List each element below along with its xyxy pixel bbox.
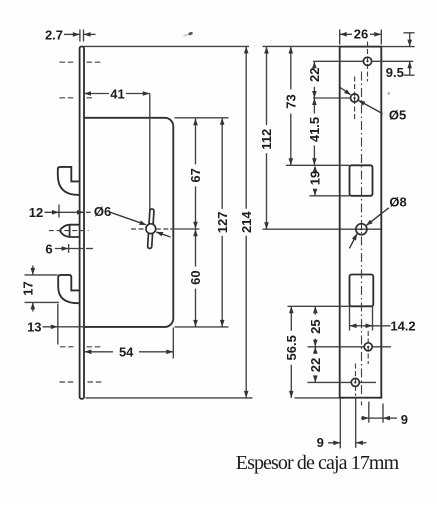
lower hook extension line [57,304,59,345]
svg-text:17: 17 [21,281,36,295]
svg-text:14.2: 14.2 [390,319,415,334]
dimension 14.2 [349,306,351,330]
spindle butterfly cam arm [148,209,155,249]
label O8 with leader [367,208,389,226]
lower rectangular cutout [350,275,374,307]
hole3 centerline [367,331,369,364]
svg-text:54: 54 [119,345,134,360]
hole O8 [356,224,367,235]
dimension 2.7 plate thickness [79,30,81,42]
horizontal extension line to right view [263,228,382,230]
svg-text:Espesor de caja 17mm: Espesor de caja 17mm [236,452,400,474]
svg-text:127: 127 [215,212,230,234]
dimension 73 [290,47,292,90]
dimension 13 leader [43,326,85,328]
dimension 9.5 [404,32,415,34]
dimension 6 [55,248,84,250]
dimension 54 [84,351,113,353]
lock body outline [84,118,173,327]
svg-text:Ø5: Ø5 [389,107,406,122]
break dashes upper row 1 [60,61,76,63]
extension line cutout1 bottom [310,195,350,197]
dimension 22 upper [313,61,315,62]
dimension 25 [314,306,316,314]
dimension 26 [339,30,341,45]
hole1 centerline [367,42,369,82]
svg-text:22: 22 [307,67,322,81]
plate left edge extension below [339,398,341,448]
svg-text:214: 214 [239,211,254,233]
lower hook latch [58,275,80,303]
bullet centerline [49,230,89,232]
screw hole3 [364,343,372,351]
faceplate front view [340,47,382,398]
extension line plate top right [381,46,414,48]
svg-text:112: 112 [259,129,274,150]
svg-text:73: 73 [284,94,299,108]
body top extension line [175,117,229,119]
extension line hole2 level [313,97,351,99]
dimension 19 [314,190,316,196]
svg-text:Ø6: Ø6 [94,204,111,219]
dimension 56.5 [290,306,292,331]
screw hole1 [363,57,371,65]
break dashes upper row 2 [60,97,76,99]
spindle hub circle [146,224,156,234]
dimension 17 [32,266,34,275]
faceplate side view (edge-on plate) [80,47,84,399]
break dashes lower row 2 [60,381,76,383]
svg-text:12: 12 [29,205,43,220]
screw hole4 [351,378,359,386]
svg-text:19: 19 [308,171,323,185]
screw hole2 O5 [351,94,359,102]
svg-text:9: 9 [401,412,408,427]
upper hook latch [58,167,80,195]
dimension 9 bottom [328,442,340,444]
top extension line [84,45,249,47]
hole4 centerline extended below plate [355,364,357,397]
main vertical centerline dash-dot [361,72,363,406]
body bottom extension line [175,326,229,328]
dimension 41 [84,93,109,95]
extension line hole4 level [308,381,352,383]
dimension 67 [195,118,197,164]
dimension 60 [195,229,197,266]
svg-text:67: 67 [188,168,203,182]
svg-text:60: 60 [188,270,203,284]
svg-text:9: 9 [317,435,324,450]
horizontal centerline through spindle [131,228,146,230]
break dashes lower row 1 [60,346,74,348]
extension line hole1 level [313,60,363,62]
hole2 centerline [354,77,356,121]
svg-text:26: 26 [354,27,368,42]
svg-text:2.7: 2.7 [45,28,63,43]
dimension 127 [221,118,223,209]
dimension 22 lower [314,347,316,353]
extension line hole3 level [308,346,365,348]
upper rectangular cutout [350,165,373,196]
scan faint dot [388,92,391,95]
roller bullet catch [60,225,80,237]
extension line cutout1 top [286,164,350,166]
dimension 112 [266,47,268,126]
svg-text:22: 22 [308,358,323,372]
bottom extension line [86,397,253,399]
dimension 12 [45,211,85,213]
dimension 9 right [361,417,369,419]
dimension 41.5 [313,98,315,114]
svg-text:25: 25 [308,319,323,333]
svg-text:41: 41 [110,87,124,102]
svg-text:56.5: 56.5 [284,335,299,360]
svg-text:41.5: 41.5 [307,117,322,142]
extension line cutout2 bottom [288,305,350,307]
svg-text:9.5: 9.5 [386,65,404,80]
svg-text:13: 13 [27,320,41,335]
scan smudge speck [188,31,194,35]
svg-text:Ø8: Ø8 [389,195,406,210]
svg-text:6: 6 [45,242,52,257]
dimension 214 [245,46,247,208]
label O5 with leader [340,88,350,95]
spindle vertical extension line [149,94,151,250]
